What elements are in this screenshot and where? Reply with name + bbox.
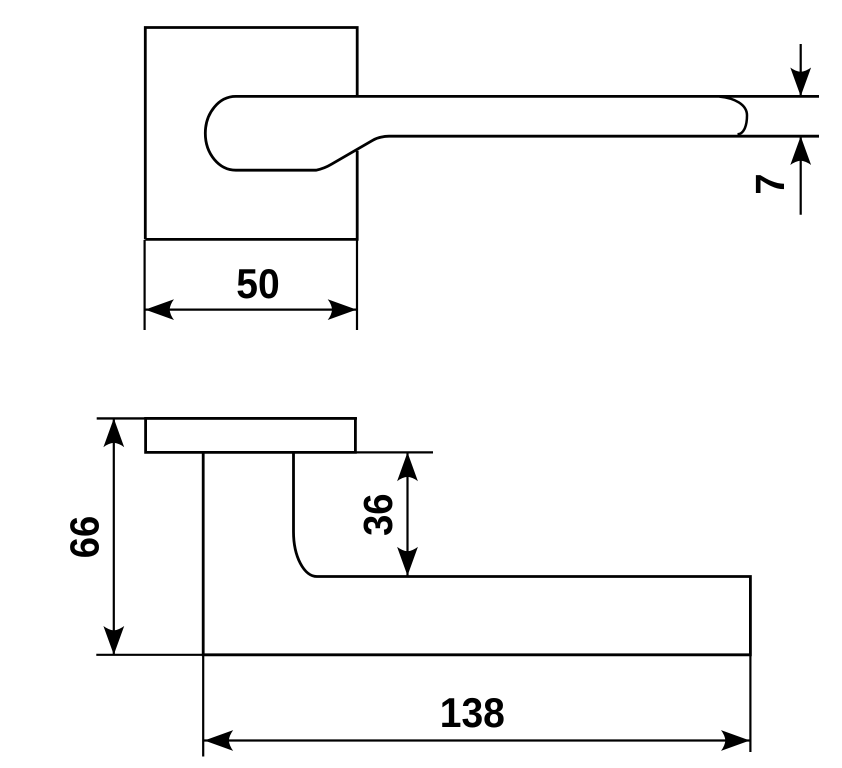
handle end cap arc (top view) [720, 97, 748, 135]
side view: rose plate rectangle [146, 418, 356, 452]
svg-text:50: 50 [236, 259, 279, 307]
dimension line 50 [145, 309, 357, 311]
extension lines below square (top view) [145, 240, 357, 330]
dimension 66 [113, 418, 115, 654]
dimension 36 [406, 452, 408, 575]
dimension 7 (handle thickness, top view) [800, 44, 802, 215]
svg-text:138: 138 [440, 689, 505, 737]
extension lines below lever (for 138) [203, 655, 750, 757]
side view: top extension line (door face) [97, 417, 357, 419]
side view: rose bottom extension line (for 36) [355, 451, 433, 453]
side view: lever bottom extension to the left (for 66) [96, 654, 205, 656]
dimension line 138 [203, 739, 750, 741]
svg-text:66: 66 [62, 516, 108, 558]
svg-text:36: 36 [356, 493, 402, 535]
side view: handle profile (neck + lever) [203, 452, 750, 654]
square rose plate (top view), right edge interrupted by handle [145, 28, 357, 240]
handle lever outline (top view) [205, 96, 819, 170]
svg-text:7: 7 [748, 173, 794, 194]
